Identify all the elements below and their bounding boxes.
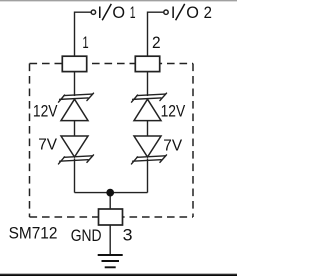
svg-text:GND: GND bbox=[71, 227, 102, 245]
svg-text:12V: 12V bbox=[161, 101, 186, 120]
svg-text:O: O bbox=[112, 4, 125, 22]
svg-text:7V: 7V bbox=[163, 138, 183, 155]
svg-text:2: 2 bbox=[204, 4, 212, 22]
svg-text:O: O bbox=[186, 4, 199, 22]
svg-text:SM712: SM712 bbox=[9, 224, 58, 242]
svg-text:3: 3 bbox=[123, 226, 133, 244]
svg-text:12V: 12V bbox=[33, 101, 58, 120]
svg-text:1: 1 bbox=[82, 34, 88, 52]
svg-text:I: I bbox=[171, 4, 176, 22]
svg-text:I: I bbox=[98, 4, 103, 22]
svg-text:1: 1 bbox=[130, 4, 136, 22]
svg-text:7V: 7V bbox=[38, 136, 58, 153]
svg-text:2: 2 bbox=[152, 34, 161, 52]
